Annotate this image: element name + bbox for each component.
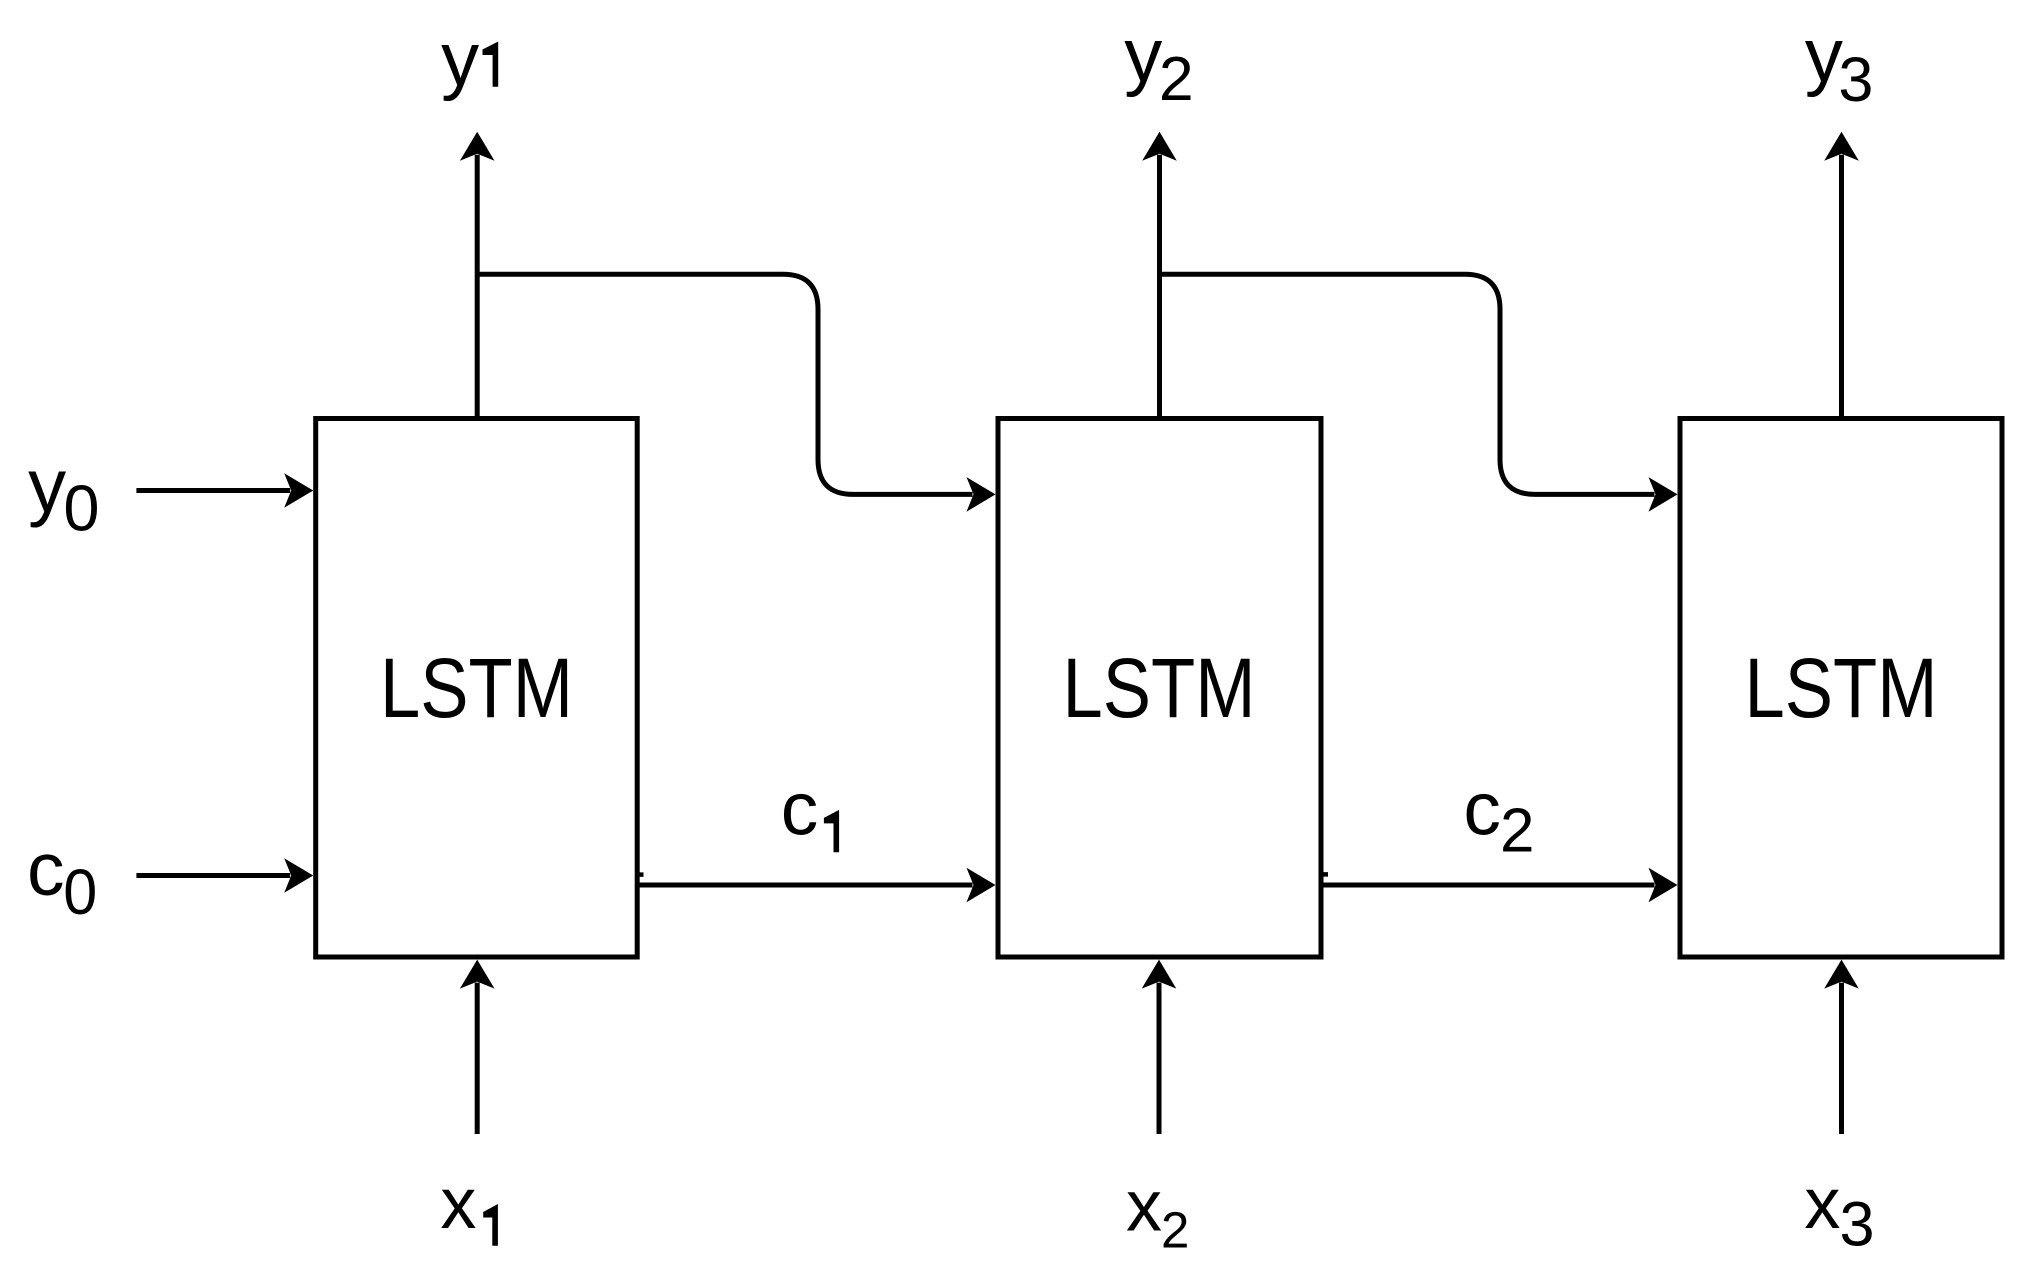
svg-text:3: 3 (1838, 45, 1873, 115)
svg-text:c: c (781, 767, 819, 851)
svg-text:2: 2 (1161, 1202, 1189, 1259)
svg-text:2: 2 (1500, 797, 1534, 866)
svg-text:3: 3 (1840, 1190, 1875, 1260)
svg-text:y: y (1805, 13, 1843, 98)
svg-text:LSTM: LSTM (380, 641, 573, 735)
svg-text:c: c (27, 827, 65, 911)
svg-text:0: 0 (63, 856, 97, 928)
svg-text:y: y (28, 444, 66, 529)
svg-text:x: x (1126, 1167, 1162, 1247)
svg-text:y: y (441, 17, 479, 102)
svg-text:LSTM: LSTM (1745, 641, 1938, 735)
svg-text:c: c (1463, 767, 1501, 851)
svg-text:x: x (440, 1164, 476, 1244)
svg-text:y: y (1124, 13, 1162, 98)
svg-text:LSTM: LSTM (1063, 641, 1256, 735)
svg-text:0: 0 (63, 472, 99, 545)
svg-text:2: 2 (1159, 44, 1194, 114)
svg-text:x: x (1804, 1164, 1840, 1244)
